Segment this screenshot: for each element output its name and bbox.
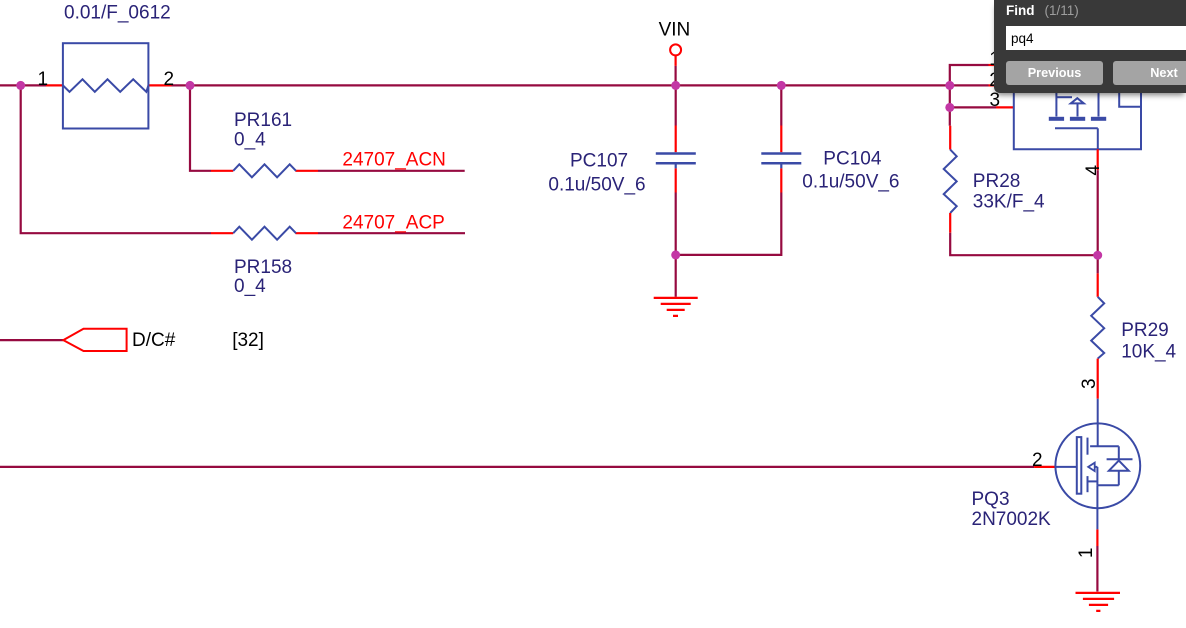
ground symbol (PQ3 source)	[1076, 593, 1121, 611]
svg-text:PR161: PR161	[234, 110, 292, 131]
wire: pin4 down to junction	[1097, 170, 1099, 273]
wire: source to ground	[1096, 546, 1098, 592]
wire: red stub pin2 PQ4	[989, 84, 995, 86]
wire: red stub pin3 PQ4	[996, 106, 1015, 108]
junction node at (675.7,254.9)	[671, 250, 680, 259]
junction node at (949.8,85.4)	[945, 81, 954, 90]
wire: long gate net to PQ3	[0, 466, 1034, 468]
junction node at (1097.7,255.2)	[1093, 251, 1102, 260]
svg-text:PR158: PR158	[234, 257, 292, 278]
svg-text:2: 2	[1032, 450, 1043, 471]
wire: red source stub PQ3	[1096, 529, 1098, 546]
transistor PQ4 symbol (partially hidden by dialog)	[1014, 93, 1141, 149]
wire: main horizontal VIN net y=85.4	[0, 84, 989, 86]
svg-text:0.01/F_0612: 0.01/F_0612	[64, 3, 171, 24]
svg-text:PC107: PC107	[570, 150, 628, 171]
svg-text:0.1u/50V_6: 0.1u/50V_6	[802, 171, 899, 192]
svg-text:1: 1	[38, 69, 49, 90]
svg-text:3: 3	[990, 90, 1001, 111]
svg-text:10K_4: 10K_4	[1121, 342, 1176, 363]
ground symbol (capacitors)	[654, 298, 698, 316]
wire: pin3 PQ4 horizontal	[950, 106, 996, 108]
svg-text:24707_ACP: 24707_ACP	[342, 212, 444, 233]
svg-text:3: 3	[1079, 378, 1100, 389]
svg-text:2N7002K: 2N7002K	[972, 509, 1052, 530]
resistor PR160 shunt zigzag	[63, 79, 148, 92]
resistor PR158 zigzag	[233, 227, 296, 240]
svg-text:2: 2	[164, 69, 175, 90]
svg-text:0_4: 0_4	[234, 130, 266, 151]
wire: dropper to ACN row	[190, 85, 211, 170]
svg-text:33K/F_4: 33K/F_4	[973, 191, 1045, 212]
junction node at (190,85.4)	[186, 81, 195, 90]
transistor PQ4 channel bars	[1049, 117, 1106, 121]
resistor PR158 red pin stubs	[211, 232, 318, 234]
svg-text:VIN: VIN	[659, 19, 691, 40]
svg-text:0_4: 0_4	[234, 276, 266, 297]
junction node at (949.8,107.4)	[945, 103, 954, 112]
svg-text:[32]: [32]	[232, 330, 264, 351]
find dialog	[994, 0, 1186, 93]
transistor PQ3 2N7002K	[1055, 399, 1140, 530]
off-page connector D/C#	[63, 329, 126, 351]
wire: red gate stub PQ3	[1034, 466, 1056, 468]
junction node at (781.3,85.4)	[777, 81, 786, 90]
wire: ground stem	[675, 255, 677, 297]
svg-text:D/C#: D/C#	[132, 330, 176, 351]
svg-text:PR29: PR29	[1121, 320, 1169, 341]
svg-text:PR28: PR28	[973, 171, 1021, 192]
svg-text:4: 4	[1083, 164, 1104, 175]
capacitor PC104	[676, 85, 802, 255]
svg-text:PQ3: PQ3	[972, 489, 1010, 510]
resistor PR161 red pin stubs	[211, 170, 318, 172]
junction node VIN at (675.7,85.4)	[671, 81, 680, 90]
wire: red pin 4 of PQ4	[1097, 149, 1099, 170]
wire: 24707_ACP net wire	[318, 232, 465, 234]
resistor PR160 shunt 0.01/F_0612 box	[63, 43, 148, 128]
resistor PR161 zigzag	[233, 164, 296, 177]
wire: left dropper to ACP row	[21, 85, 211, 233]
svg-text:1: 1	[1076, 548, 1097, 559]
resistor PR29 vertical	[1091, 273, 1104, 398]
power symbol VIN	[670, 44, 681, 85]
svg-text:0.1u/50V_6: 0.1u/50V_6	[548, 174, 645, 195]
wire: red stub pin1 PQ4	[989, 64, 995, 66]
svg-text:PC104: PC104	[823, 149, 882, 170]
wire: D/C# stub	[0, 339, 63, 341]
svg-text:24707_ACN: 24707_ACN	[342, 149, 446, 170]
junction node at (20.7,85.4)	[16, 81, 25, 90]
capacitor PC107	[656, 85, 696, 255]
resistor PR28 vertical	[944, 107, 1098, 255]
wire: riser to PQ4 pins x=949.8	[950, 65, 989, 107]
wire: red pin stubs of shunt resistor	[46, 84, 172, 86]
wire: 24707_ACN net wire	[318, 170, 465, 172]
